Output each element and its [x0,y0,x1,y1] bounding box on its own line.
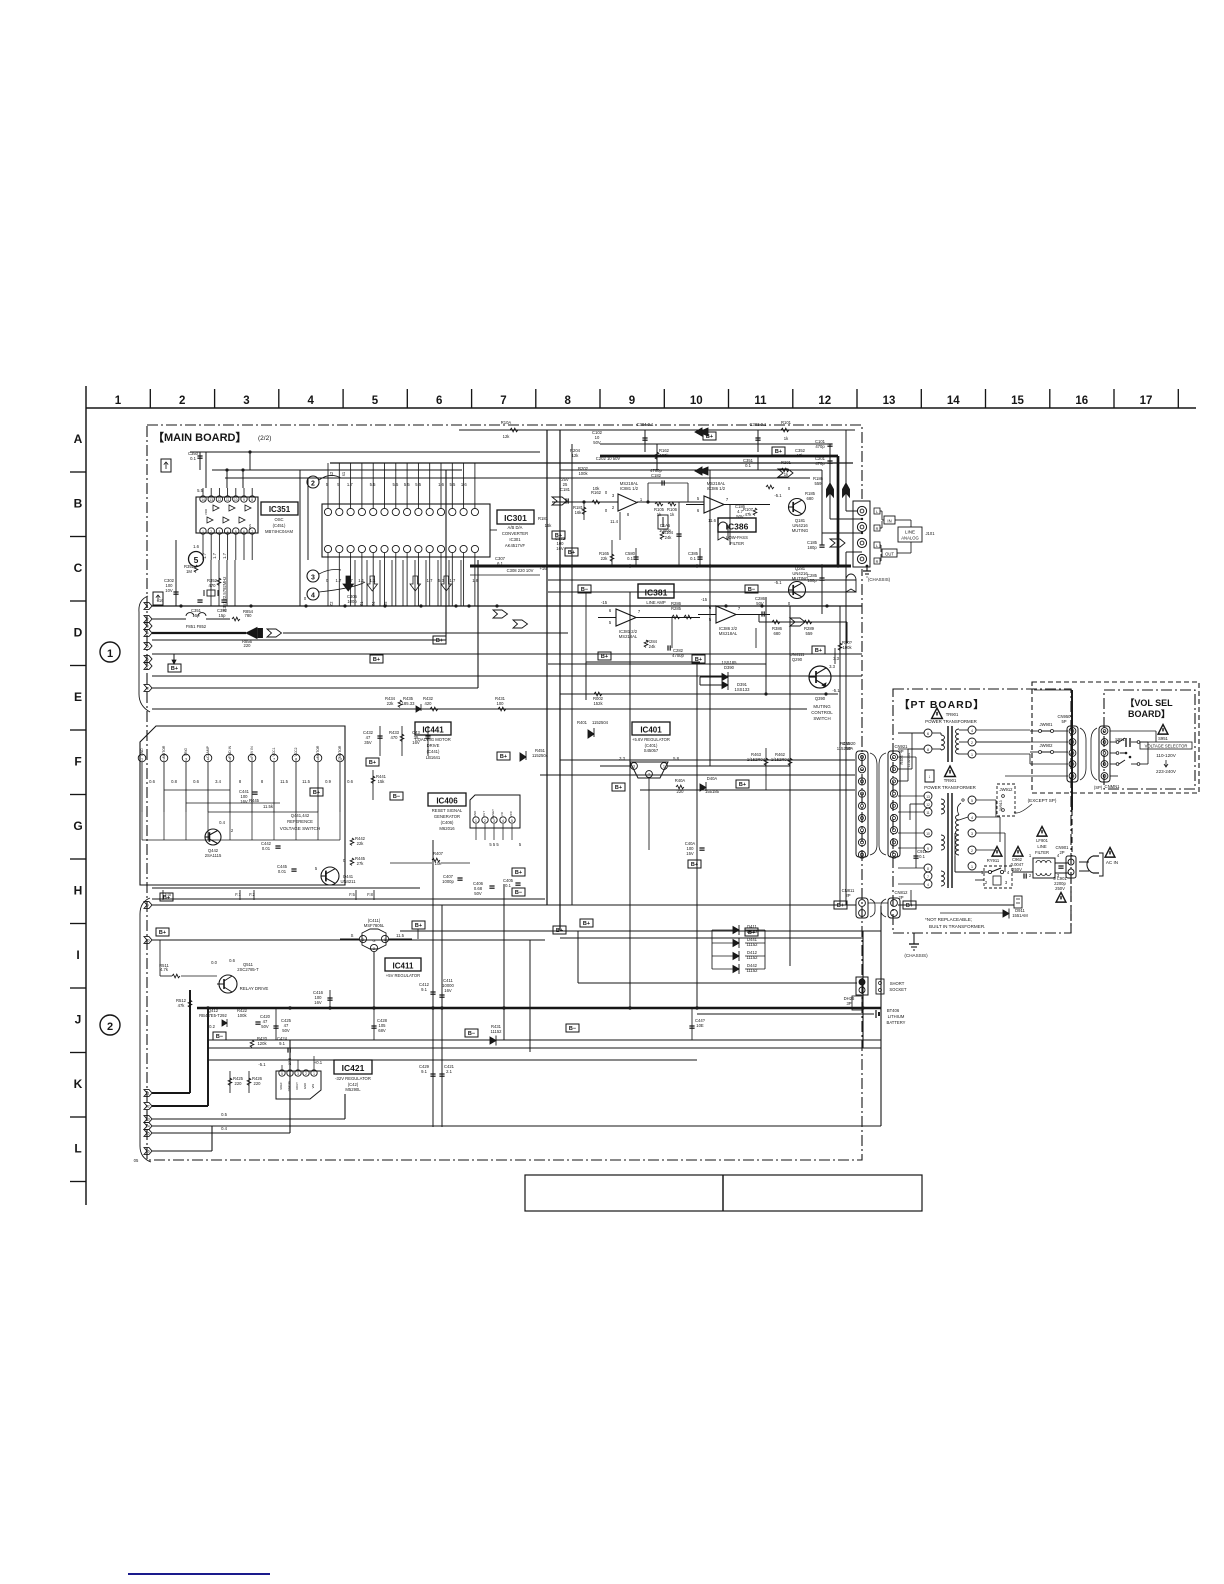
B- box row J right [566,1024,579,1032]
svg-text:+16: +16 [156,598,164,603]
svg-text:6: 6 [147,657,149,661]
jack pin R in [857,522,866,531]
svg-text:22k: 22k [357,841,365,846]
svg-text:(SP): (SP) [1094,785,1103,790]
capacitor C441 [239,789,258,804]
svg-text:1.6: 1.6 [438,482,444,487]
capacitor C425 C428 [273,1008,705,1040]
wire net6 [152,675,862,677]
svg-text:R285: R285 [671,606,682,611]
wire row H upper [152,898,545,900]
svg-text:120k: 120k [257,1041,267,1046]
wire rail A row upper [225,430,846,566]
svg-text:B+: B+ [568,550,575,556]
wires CN920 PT links [868,733,924,903]
svg-text:10k: 10k [593,486,601,491]
svg-text:13: 13 [209,498,213,502]
svg-text:-27.5: -27.5 [288,1058,292,1067]
B+ box row E1 [692,655,705,663]
heavy rail row J [197,1006,881,1009]
svg-text:B+: B+ [601,654,608,660]
chassis ground under jack [863,565,891,582]
svg-text:IC411: IC411 [393,962,414,971]
svg-text:SOCKET: SOCKET [889,987,907,992]
svg-text:R201: R201 [781,460,792,465]
capacitor C404 [685,841,705,856]
svg-text:B−: B− [468,1031,475,1037]
diode D911 [940,908,1028,919]
svg-text:B+: B+ [837,903,844,909]
svg-text:12: 12 [145,1104,149,1108]
svg-text:CONTROL: CONTROL [811,710,833,715]
svg-text:J: J [75,1013,82,1027]
op-amp IC386 1/2 upper [686,481,770,523]
svg-text:【VOL SEL: 【VOL SEL [1125,698,1173,708]
capacitor C302a [153,540,179,606]
svg-text:1SS133: 1SS133 [735,687,751,692]
connector pin 12 [144,1103,152,1110]
svg-text:2: 2 [107,1021,113,1033]
labels right G column [837,741,911,767]
connector CN950 [1057,714,1086,782]
svg-text:C304 0.1: C304 0.1 [637,422,655,427]
capacitor C305 C306 near IC301 [304,560,367,606]
open arrow up below rail [846,574,856,592]
svg-text:47k: 47k [178,1003,186,1008]
svg-text:1.7: 1.7 [202,552,207,558]
svg-text:0.1: 0.1 [505,883,511,888]
svg-text:12: 12 [818,395,831,407]
capacitor C445 [277,864,297,874]
wire net15 [152,1040,290,1133]
svg-text:B+: B+ [691,862,698,868]
svg-text:25: 25 [563,482,568,487]
lithium battery BT406 [871,1008,906,1025]
svg-text:B−: B− [216,1034,223,1040]
svg-text:3.4: 3.4 [215,779,221,784]
svg-text:1: 1 [313,1072,315,1076]
svg-text:0.8: 0.8 [171,779,177,784]
IC351 package [196,488,258,560]
jack wires [822,483,863,566]
svg-text:05: 05 [134,1158,139,1163]
svg-text:C308 220 10V: C308 220 10V [507,568,534,573]
svg-text:220: 220 [244,643,252,648]
grid ruler column numbers [115,395,1153,407]
svg-text:15k: 15k [378,779,386,784]
capacitor C301 [743,456,758,470]
B- box row G x940 [925,770,934,782]
warning TR901 lower [924,766,976,790]
warning TR901 upper [925,708,977,724]
svg-text:【PT BOARD】: 【PT BOARD】 [899,698,985,711]
svg-text:3: 3 [633,765,635,769]
section mark 2 [100,1015,120,1035]
svg-text:M62016: M62016 [439,826,455,831]
svg-text:6: 6 [243,530,245,534]
svg-text:0.6: 0.6 [229,958,235,963]
svg-text:13: 13 [926,795,930,799]
svg-text:0.1: 0.1 [627,556,633,561]
svg-text:B+: B+ [369,760,376,766]
svg-text:LF901: LF901 [1036,838,1049,843]
B+ box row F [366,758,379,766]
svg-text:2.1: 2.1 [446,1069,452,1074]
svg-text:+0.1: +0.1 [314,1060,323,1065]
IC301 bottom open arrow down [367,576,378,591]
svg-text:3: 3 [971,832,973,836]
svg-text:1: 1 [971,753,973,757]
svg-text:100k: 100k [578,471,588,476]
wire net11 heavy [152,990,190,1093]
svg-text:2P: 2P [845,893,850,898]
connector DH26 [844,996,862,1010]
svg-text:9: 9 [629,395,635,407]
connector bracket group 2 [140,898,151,1162]
B+ box net5 mid [370,655,383,663]
connector pin 15 [144,1130,152,1137]
svg-text:50V: 50V [282,1028,290,1033]
wires PT internal [898,757,1014,905]
svg-text:6: 6 [436,395,442,407]
resistor R284 [644,639,657,649]
grid ruler top line [86,386,1196,408]
svg-text:LOW-PASS: LOW-PASS [726,535,748,540]
svg-text:REV IN: REV IN [250,746,254,758]
svg-text:2: 2 [210,530,212,534]
svg-text:-5.1: -5.1 [774,580,782,585]
left bus labels row C [538,516,566,551]
svg-text:LITHIUM: LITHIUM [888,1014,905,1019]
svg-text:5.5: 5.5 [415,482,421,487]
svg-text:B+: B+ [739,782,746,788]
resistor R162 [655,444,669,470]
svg-text:-32V REGULATOR: -32V REGULATOR [335,1076,371,1081]
capacitor C186 [730,504,746,545]
B box right [1014,896,1022,908]
svg-text:9.1: 9.1 [421,987,427,992]
capacitor C901 [1053,863,1069,902]
svg-text:16V: 16V [314,1000,322,1005]
svg-text:4: 4 [147,631,149,635]
transistor Q511 relay drive [211,958,268,993]
svg-text:L: L [876,510,878,514]
svg-text:IC301: IC301 [509,537,521,542]
IC301 left frame wires [300,470,462,606]
svg-text:F.1: F.1 [235,892,241,897]
Q412 cluster [199,1008,290,1053]
resistor R101 [781,420,792,441]
svg-text:C202 10 50V: C202 10 50V [596,456,621,461]
wire vertical trunk x547 [546,430,548,905]
resistor R103 R104 net [620,512,674,540]
svg-text:1.7: 1.7 [427,578,433,583]
svg-text:R445: R445 [249,798,260,803]
svg-text:SHORT: SHORT [890,981,905,986]
svg-text:IC401: IC401 [640,726,662,735]
resistor R801 [838,640,852,650]
svg-text:IC351: IC351 [269,505,291,514]
svg-text:11: 11 [754,395,767,407]
svg-text:Q441,442: Q441,442 [291,813,310,818]
wire trunk x504 [503,884,505,1040]
svg-text:Q290: Q290 [792,657,803,662]
svg-text:22k: 22k [387,701,395,706]
wires vol sel internal [1110,731,1156,776]
diode D401 [577,720,609,738]
capacitor C185 C285 [807,540,825,614]
svg-text:470p: 470p [815,461,825,466]
svg-text:VOUT: VOUT [295,1082,299,1090]
except sp1 note [1014,798,1057,813]
open arrow up near C186 [718,522,728,540]
svg-text:9: 9 [927,847,929,851]
IC406 package [470,795,522,847]
svg-text:1.7: 1.7 [212,552,217,558]
svg-text:MUTING: MUTING [792,528,809,533]
reference voltage switch text [249,798,320,831]
IC301 column wires down [329,560,461,606]
svg-text:D40A: D40A [707,776,718,781]
short socket [856,977,907,995]
svg-text:FILTER: FILTER [730,541,744,546]
wire net9 [152,904,856,906]
svg-text:+5V REGULATOR: +5V REGULATOR [386,973,420,978]
PT BOARD border [893,689,1071,933]
muting resistor row [759,597,847,694]
svg-text:3: 3 [219,530,221,534]
svg-text:152k: 152k [593,701,603,706]
svg-text:1M: 1M [186,569,192,574]
IC351 label [261,502,298,534]
connector CN951 [1091,726,1120,790]
svg-text:3: 3 [362,938,364,942]
svg-text:11.6: 11.6 [708,518,717,523]
capacitor C185 C580 [599,540,703,566]
svg-text:2: 2 [971,849,973,853]
svg-text:GND: GND [473,810,477,818]
svg-text:8: 8 [147,686,149,690]
svg-text:420: 420 [425,701,433,706]
wire net12 heavy [152,1008,208,1106]
svg-text:3: 3 [297,1072,299,1076]
svg-text:3: 3 [243,395,249,407]
IC401 label [632,722,670,753]
svg-text:16V: 16V [412,740,420,745]
resistor R107 [743,507,757,517]
resistor R102 input [591,486,602,504]
resistor R407 [390,851,470,866]
B+ box under IC406 [512,888,525,896]
svg-text:OSC: OSC [274,517,283,522]
svg-text:MUTING: MUTING [813,704,831,709]
svg-text:C181: C181 [560,487,571,492]
svg-text:POWER TRANSFORMER: POWER TRANSFORMER [924,785,976,790]
svg-text:B−: B− [393,794,400,800]
svg-text:RB4.7E5-T292: RB4.7E5-T292 [199,1013,227,1018]
svg-text:R: R [876,560,879,564]
jumper JW901 [1030,722,1068,733]
svg-text:780: 780 [245,613,253,618]
svg-text:-5.1: -5.1 [832,688,840,693]
svg-text:LOADING MOTOR: LOADING MOTOR [415,737,451,742]
svg-text:AC IN: AC IN [1106,860,1118,865]
connector pin 13 [144,1116,152,1123]
svg-text:9: 9 [243,498,245,502]
B+ box IC401 right [736,780,749,788]
B+ box IC401 left [612,783,625,791]
svg-text:4: 4 [971,816,973,820]
svg-text:5: 5 [194,555,199,565]
connector pin 8 [144,685,152,692]
svg-text:K: K [74,1077,83,1091]
IC301 package [322,463,490,606]
B+ box row F2 [390,792,403,800]
connector bracket group 1 [139,596,150,712]
svg-text:1: 1 [107,648,113,660]
svg-text:16: 16 [1075,395,1088,407]
svg-text:0.0: 0.0 [211,960,217,965]
IC351 top wires [197,450,305,493]
svg-text:F.8: F.8 [367,892,373,897]
svg-text:16k: 16k [575,510,583,515]
svg-text:OUT: OUT [482,811,486,818]
IC421 label [334,1060,372,1092]
svg-text:JW901: JW901 [1039,722,1053,727]
svg-text:B+: B+ [556,928,563,934]
jack pin L out [857,538,866,547]
svg-text:0.6: 0.6 [347,779,353,784]
svg-text:0.01: 0.01 [278,869,287,874]
svg-text:H: H [74,884,83,898]
svg-text:5.5: 5.5 [449,482,455,487]
resistor R511 [159,940,217,978]
svg-text:100k: 100k [842,645,852,650]
svg-text:50V: 50V [474,891,482,896]
resistor R201 [781,460,792,477]
svg-text:0.01: 0.01 [262,846,271,851]
node mark 2 [307,475,341,488]
svg-text:(C406): (C406) [441,820,454,825]
transformer T901 core upper [948,726,952,762]
svg-text:1: 1 [475,819,477,823]
svg-text:11: 11 [926,811,930,815]
svg-text:0.6: 0.6 [149,779,155,784]
IC441 package [138,726,345,885]
svg-text:2: 2 [179,395,185,407]
svg-text:250V: 250V [1012,867,1022,872]
transformer primary upper [898,729,945,753]
svg-text:L: L [74,1142,81,1156]
transistor Q290 muting control [790,652,841,721]
svg-text:MSF7805L: MSF7805L [364,923,385,928]
svg-text:S951: S951 [1158,736,1168,741]
B+ box CN812 [903,901,916,909]
svg-text:TR901: TR901 [944,778,957,783]
svg-text:1.1: 1.1 [370,578,376,583]
svg-text:12: 12 [218,498,222,502]
line filter LF901 [1029,827,1060,879]
svg-text:1.7: 1.7 [222,552,227,558]
svg-text:1.6: 1.6 [193,544,199,549]
svg-text:CLAMP: CLAMP [206,745,210,757]
B+ label top [703,432,716,440]
B+ box IC441 [310,788,323,796]
capacitor C201 [815,456,833,466]
wire row K right [208,940,697,1060]
connector pin 16 [144,1148,152,1155]
svg-text:B+: B+ [171,666,178,672]
svg-text:14: 14 [947,395,960,407]
svg-text:LINE: LINE [905,530,915,535]
section mark 1 [100,642,120,662]
arrows up near jack [827,483,850,547]
chassis ground PT [904,933,928,958]
svg-text:1.7: 1.7 [347,482,353,487]
svg-text:1152504: 1152504 [532,753,549,758]
svg-text:2: 2 [373,947,375,951]
svg-text:5.5: 5.5 [392,482,398,487]
B+ box mid [565,548,578,556]
B+ box row D left [598,652,611,660]
svg-text:10V: 10V [165,588,173,593]
svg-text:S45057: S45057 [644,748,659,753]
connector pin 6 [144,656,152,663]
capacitor C412 C411 [419,978,454,997]
svg-text:100: 100 [497,701,505,706]
svg-text:VOLTAGE SWITCH: VOLTAGE SWITCH [280,826,320,831]
svg-text:2: 2 [484,819,486,823]
resistor R10A [501,420,518,439]
svg-text:50V: 50V [593,440,601,445]
svg-text:10E: 10E [696,1023,704,1028]
wire trunk x433 [432,840,434,1127]
svg-text:15p: 15p [219,613,227,618]
svg-text:FILTER: FILTER [1035,850,1049,855]
svg-text:2SA1115: 2SA1115 [205,853,222,858]
svg-text:(2/2): (2/2) [258,435,271,442]
svg-text:CONVERTER: CONVERTER [502,531,528,536]
svg-text:B+: B+ [436,638,443,644]
op-amp IC386 2/2 [698,597,770,636]
svg-text:E: E [74,690,82,704]
ff arrow left pair row A [695,428,708,475]
svg-text:5: 5 [235,530,237,534]
svg-text:AK4517VF: AK4517VF [505,543,526,548]
svg-text:10: 10 [690,395,703,407]
AC IN label [1105,848,1118,866]
wire vertical trunk x790 [789,606,791,966]
svg-text:JW902: JW902 [1039,743,1053,748]
svg-text:100p: 100p [347,599,357,604]
MAIN BOARD title [153,431,271,444]
wire vertical trunk x840 [839,606,841,905]
relay switch wires [975,872,1033,880]
wire vertical trunk x697 [696,664,698,940]
svg-text:13: 13 [883,395,896,407]
svg-text:8: 8 [251,498,253,502]
svg-text:1: 1 [147,604,149,608]
IC406 label [428,793,466,831]
jack label LINE ANALOG [895,520,935,553]
svg-text:GND: GND [140,748,144,756]
svg-text:8: 8 [927,867,929,871]
svg-text:3: 3 [147,624,149,628]
svg-text:GENERATOR: GENERATOR [434,814,460,819]
svg-text:B+: B+ [815,648,822,654]
wire right verticals rows I-K [697,906,881,1126]
svg-text:10: 10 [145,938,149,942]
